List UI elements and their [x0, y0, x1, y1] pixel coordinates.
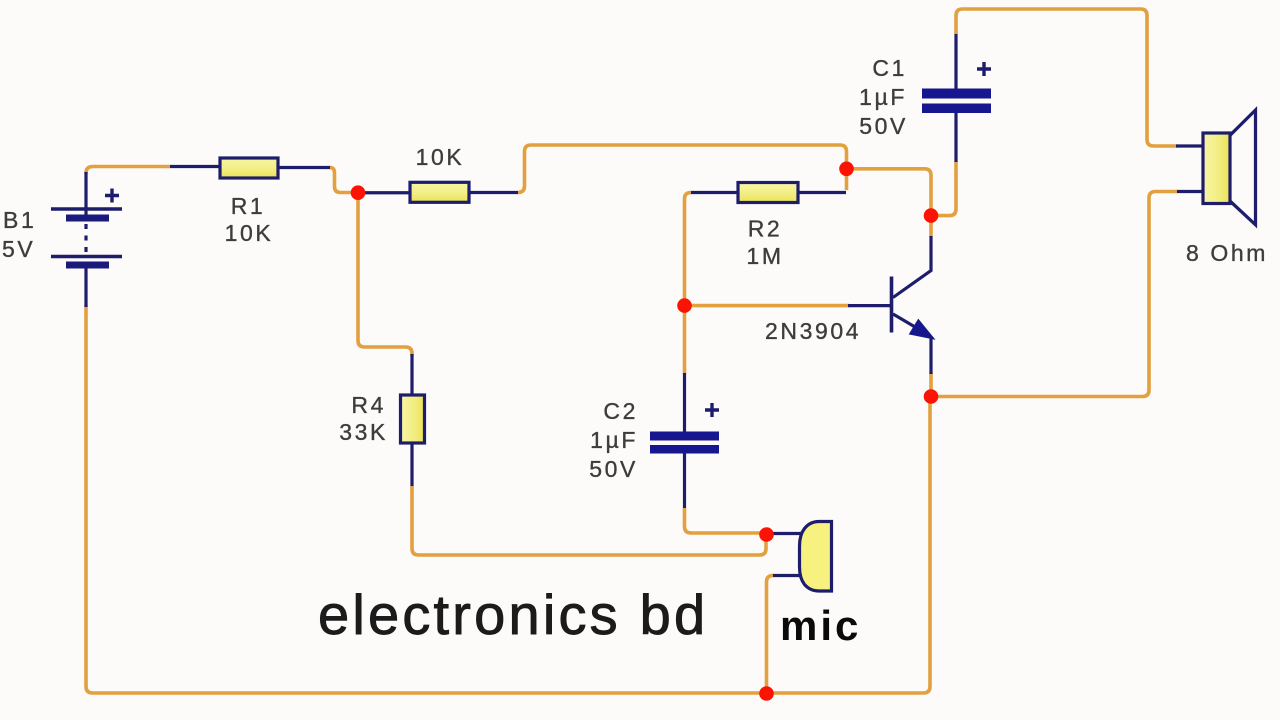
svg-text:8 Ohm: 8 Ohm — [1186, 240, 1268, 266]
svg-text:1µF: 1µF — [590, 427, 638, 453]
svg-text:mic: mic — [780, 602, 861, 649]
battery B1 plate long top — [51, 207, 122, 210]
capacitor C1 plate top — [922, 89, 991, 99]
capacitor C2 top lead (navy) — [683, 373, 686, 432]
capacitor C2 plate top — [650, 432, 719, 441]
svg-text:B1: B1 — [3, 207, 36, 233]
svg-text:10K: 10K — [416, 144, 465, 170]
wire collector orange segment — [929, 219, 933, 237]
node F junction dot — [924, 389, 939, 404]
wire R1 right step down to node A (orange) — [329, 168, 352, 193]
wire speaker top lead (navy) — [1176, 144, 1203, 147]
wire node A down to R4 (orange) — [358, 198, 412, 356]
capacitor C2 plus sign — [705, 403, 719, 417]
wire R4 bottom lead (navy) — [410, 443, 413, 487]
node G junction dot — [924, 208, 939, 223]
wire battery top lead (navy) — [84, 172, 87, 217]
speaker horn — [1231, 110, 1256, 225]
battery B1 plate thick bottom — [66, 262, 109, 269]
transistor emitter lead — [929, 336, 932, 374]
battery B1 plus sign — [105, 189, 119, 203]
node A junction dot — [351, 185, 366, 200]
wire mic bottom lead (navy) — [772, 574, 802, 577]
svg-text:33K: 33K — [339, 419, 388, 445]
svg-text:R4: R4 — [351, 392, 386, 418]
capacitor C1 top lead (navy) — [954, 33, 957, 89]
svg-text:5V: 5V — [2, 236, 35, 262]
wire R4 top lead (navy) — [410, 354, 413, 395]
wire R3 to top rail to node B (orange) — [518, 145, 847, 193]
wire R2 right lead (navy) — [798, 191, 846, 194]
battery B1 dashed link — [84, 224, 87, 253]
wire R3 right lead (navy) — [469, 191, 519, 194]
wire mic top lead (navy) — [770, 532, 802, 535]
battery B1 plate long bottom — [51, 255, 122, 258]
wire node C down to C2 (orange) — [683, 309, 687, 374]
wire R4 bottom to node D (orange) — [412, 486, 766, 555]
svg-text:50V: 50V — [589, 456, 638, 482]
wire R2 left lead (navy) — [690, 191, 738, 194]
transistor base bar — [890, 277, 894, 333]
node C junction dot — [677, 298, 692, 313]
wire R1 right lead (navy) — [278, 166, 330, 169]
capacitor C1 plus sign — [977, 62, 991, 76]
wire speaker bottom down to node F (orange) — [936, 192, 1177, 397]
node E junction dot — [759, 686, 774, 701]
svg-text:10K: 10K — [225, 220, 274, 246]
transistor emitter diagonal — [893, 314, 921, 331]
svg-text:C1: C1 — [872, 55, 907, 81]
transistor Q1 2N3904 — [892, 236, 933, 374]
resistor R4 — [401, 395, 425, 443]
svg-text:1µF: 1µF — [859, 84, 907, 110]
svg-text:C2: C2 — [603, 398, 638, 424]
wire base navy segment — [848, 304, 891, 307]
transistor collector lead — [893, 236, 931, 298]
wire battery bottom lead (navy) — [84, 263, 87, 307]
svg-text:R1: R1 — [231, 193, 266, 219]
capacitor C1 bottom lead (navy) — [954, 112, 957, 162]
wire node B to node G (orange) — [851, 169, 931, 212]
wire emitter to node F (orange) — [929, 372, 933, 392]
battery B1 plate thick top — [66, 215, 109, 222]
wire node A to R3 (navy) — [362, 191, 410, 194]
wire C1 top to top-right rail to speaker top (orange) — [956, 9, 1177, 146]
wire base from node C to transistor (orange) — [688, 304, 849, 308]
resistor R2 — [738, 183, 798, 203]
wire battery top to R1 (navy) — [170, 165, 220, 168]
speaker LS1 box — [1203, 133, 1230, 204]
wire node G to C1 bottom (orange) — [934, 161, 956, 216]
svg-text:2N3904: 2N3904 — [765, 318, 861, 344]
wire speaker bottom lead (navy) — [1176, 190, 1203, 193]
wire R2 left down to node C (orange) — [685, 193, 692, 303]
resistor R1 — [220, 158, 278, 178]
svg-text:50V: 50V — [859, 113, 908, 139]
node B junction dot — [839, 162, 854, 177]
svg-text:1M: 1M — [746, 243, 783, 269]
node D junction dot — [759, 527, 774, 542]
svg-text:R2: R2 — [748, 216, 783, 242]
capacitor C1 plate bottom — [922, 104, 991, 114]
wire battery top corner (orange) — [86, 167, 170, 175]
resistor R3 10K — [410, 182, 469, 202]
wire C2 bottom to node D (orange) — [685, 508, 763, 533]
capacitor C2 bottom lead (navy) — [683, 453, 686, 509]
capacitor C2 plate bottom — [650, 445, 719, 454]
wire node F down and bottom rail and left rail (orange) — [86, 305, 930, 693]
wire mic bottom down to node E (orange) — [767, 576, 774, 690]
svg-text:electronics bd: electronics bd — [318, 583, 708, 646]
transistor emitter arrow — [911, 321, 933, 338]
microphone symbol — [800, 522, 832, 592]
